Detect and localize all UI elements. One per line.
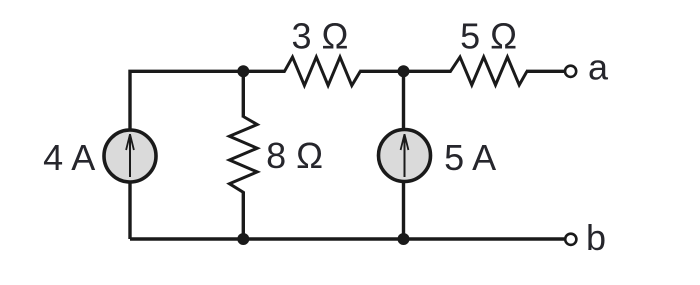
wire bottom rail bbox=[130, 237, 564, 240]
svg-text:4 A: 4 A bbox=[43, 137, 95, 178]
current source 5 A (circle) bbox=[379, 130, 431, 182]
current source 4 A arrow bbox=[129, 135, 131, 177]
svg-text:8 Ω: 8 Ω bbox=[266, 135, 323, 176]
junction node dot top-right (403,71) bbox=[398, 65, 410, 77]
current source 4 A (circle) bbox=[104, 130, 156, 182]
svg-text:a: a bbox=[588, 47, 609, 88]
resistor 5 Ω (zigzag) bbox=[451, 57, 528, 85]
svg-text:b: b bbox=[586, 217, 606, 258]
terminal a (open circle) bbox=[565, 66, 576, 77]
svg-text:5 A: 5 A bbox=[444, 137, 496, 178]
terminal b (open circle) bbox=[565, 234, 576, 245]
wire left branch bottom (source to bottom rail) bbox=[128, 182, 131, 239]
junction node dot bottom-right (403,239) bbox=[398, 233, 410, 245]
svg-text:3 Ω: 3 Ω bbox=[292, 15, 349, 56]
resistor 8 Ω (vertical zigzag) bbox=[229, 117, 257, 193]
svg-text:5 Ω: 5 Ω bbox=[460, 15, 517, 56]
junction node dot bottom-left (243,239) bbox=[237, 233, 249, 245]
wire middle branch top (top rail to 8Ω) bbox=[242, 71, 245, 117]
junction node dot top-left (243,71) bbox=[237, 65, 249, 77]
wire middle branch bottom (8Ω to bottom rail) bbox=[242, 191, 245, 239]
wire top rail right (5Ω to terminal a) bbox=[526, 70, 564, 73]
wire right branch top (top rail to 5A source) bbox=[402, 71, 405, 131]
wire top rail middle (node to 5Ω) bbox=[359, 70, 451, 73]
current source 5 A arrow bbox=[404, 135, 406, 177]
wire right branch bottom (5A source to bottom rail) bbox=[402, 182, 405, 240]
resistor 3 Ω (zigzag) bbox=[285, 57, 361, 86]
wire top-left rail with left corner bbox=[130, 71, 286, 130]
